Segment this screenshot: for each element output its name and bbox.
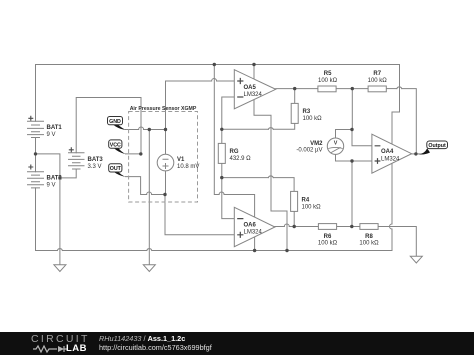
hop arc OA4 Vminus wire over R8 row: [390, 224, 393, 229]
wire: rail drop at 214.3 to OA6 Vplus row, hop at 221.8: [214, 65, 219, 195]
svg-text:10.8 mV: 10.8 mV: [177, 164, 199, 170]
voltage source V1: [157, 154, 199, 171]
resistor R6: [318, 224, 336, 230]
node rail drop: [213, 63, 216, 66]
svg-text:R7: R7: [373, 71, 381, 77]
wire: OA4 output to flag: [412, 153, 424, 155]
svg-text:100 kΩ: 100 kΩ: [318, 78, 338, 84]
resistor R3: [291, 103, 298, 123]
hop arc rail over BAT ground wire: [57, 249, 62, 251]
footer bar: [0, 332, 474, 355]
wire: mid junction to BAT2 top: [35, 154, 37, 172]
wire: sensor ground vertical down to ground 2: [148, 130, 150, 265]
wire: RG bottom lead: [221, 163, 223, 177]
node sensor gnd a: [148, 128, 151, 131]
sensor dashed box Air Pressure Sensor XGMP: [129, 112, 198, 203]
node VCC pin: [139, 152, 142, 155]
wire: top supply rail and left outer wire down to BAT1: [36, 65, 400, 122]
op-amp OA6 LM324: [234, 207, 275, 246]
footer text: [99, 334, 185, 343]
node R4 bottom: [293, 225, 296, 228]
node R3 top: [293, 87, 296, 90]
wire: feedback row RG top to R3 bottom, hop at 271: [222, 128, 268, 130]
svg-text:9 V: 9 V: [47, 183, 56, 189]
hop arc feedback row over detour: [268, 128, 273, 130]
node V1 top: [164, 128, 167, 131]
tag OUT: [109, 164, 126, 177]
svg-text:V: V: [334, 141, 338, 147]
wire: negative rail with hops at 60 and 149.3: [36, 250, 58, 252]
svg-text:100 kΩ: 100 kΩ: [318, 241, 338, 247]
node OA4 plus: [350, 159, 353, 162]
wire: R7 right with hop at 399.5, corner down to OA4 output node: [386, 88, 397, 90]
node BAT mid: [34, 152, 37, 155]
svg-text:R8: R8: [365, 234, 373, 240]
flag Output: [418, 141, 447, 154]
node OA4 out: [414, 152, 417, 155]
op-amp OA4 LM324: [372, 134, 412, 173]
svg-text:OUT: OUT: [110, 166, 122, 172]
node OA5 Vplus: [252, 63, 255, 66]
hop arc OA6 Vplus row over RG wire: [219, 192, 224, 195]
wire: top rail right end down to OA4 Vplus stub: [392, 65, 400, 145]
op-amp OA5 LM324: [234, 70, 275, 109]
wire: R4 bottom lead: [293, 211, 295, 226]
wire: OUT tag route with hop at 149.3: [126, 177, 147, 195]
wire: OA4 Vminus stub down with vertical hop at 226.5: [391, 229, 393, 251]
node RG top: [220, 128, 223, 131]
wire: RG vertical down to OA6 minus input: [222, 178, 235, 219]
wire: R3 top lead: [294, 89, 296, 104]
hop arc GND row over VCC drop: [139, 127, 144, 130]
hop arc OA6 output row over detour: [284, 224, 289, 227]
wire: R6 to R8: [337, 226, 360, 228]
wire: R8 right to ground 3: [378, 227, 416, 257]
wire: mid junction right and down to ground 1: [36, 154, 60, 265]
wire: VM2 top lead to feedback column: [336, 130, 353, 139]
svg-text:-0.002 µV: -0.002 µV: [296, 148, 322, 154]
svg-text:RG: RG: [230, 149, 239, 155]
svg-text:VM2: VM2: [310, 141, 323, 147]
svg-text:100 kΩ: 100 kΩ: [303, 116, 323, 122]
node R5 R7: [351, 87, 354, 90]
node RG bottom: [220, 176, 223, 179]
voltmeter VM2: [296, 138, 343, 154]
wire: OA6 Vminus stub: [254, 237, 256, 251]
svg-text:432.9 Ω: 432.9 Ω: [230, 156, 252, 162]
hop arc OA5 plus row over rail drop: [212, 79, 217, 82]
wire: VM2 bottom lead to OA4 plus input: [336, 154, 372, 161]
tag GND: [108, 117, 127, 130]
wire: OA5 plus input row with hop at 214.3: [166, 80, 212, 82]
node VM2 top: [350, 128, 353, 131]
battery BAT2: [27, 172, 44, 188]
ground (BAT midpoint): [54, 265, 66, 272]
wire: VCC tag row: [126, 153, 141, 155]
svg-text:OA5: OA5: [244, 85, 257, 91]
svg-text:Air Pressure Sensor XGMP: Air Pressure Sensor XGMP: [130, 106, 197, 112]
node OUT pin: [163, 193, 166, 196]
svg-text:100 kΩ: 100 kΩ: [359, 241, 379, 247]
battery BAT1: [27, 121, 44, 137]
wire: V1 bottom lead to OUT node: [165, 171, 167, 195]
resistor R4: [291, 191, 298, 211]
wire: R5 to R7: [336, 88, 368, 90]
wire: BAT3 plus up, over and down to VCC dot: [76, 98, 141, 154]
svg-text:R6: R6: [324, 234, 332, 240]
svg-text:100 kΩ: 100 kΩ: [302, 205, 322, 211]
wire: RG bottom row to R4 top, hop at 271: [222, 177, 268, 179]
svg-text:100 kΩ: 100 kΩ: [368, 78, 388, 84]
resistor R7: [368, 86, 386, 92]
svg-text:VCC: VCC: [110, 142, 121, 148]
svg-text:LM324: LM324: [381, 157, 400, 163]
svg-text:R5: R5: [324, 71, 332, 77]
hop arc rail over sensor ground wire: [147, 249, 152, 251]
node detour rail: [285, 249, 288, 252]
tag VCC: [109, 140, 126, 154]
svg-text:9 V: 9 V: [47, 132, 56, 138]
wire: OA5 Vplus stub: [253, 65, 255, 80]
wire: RG top lead: [221, 129, 223, 143]
ground (R8): [410, 256, 422, 263]
wire: OA5 minus input left and down to RG top: [222, 97, 235, 129]
svg-text:LM324: LM324: [244, 230, 263, 236]
wire: feedback column R5R7 node down to OA4 minus input: [352, 89, 372, 146]
node BAT3 minus: [58, 176, 61, 179]
CircuitLab logo: [31, 333, 90, 345]
svg-text:Output: Output: [428, 143, 446, 149]
node R6 R8: [350, 225, 353, 228]
wire: BAT1 bottom to mid junction: [35, 138, 37, 154]
resistor RG: [218, 143, 225, 163]
hop arc R7 row over Vplus drop: [397, 87, 402, 89]
svg-text:BAT1: BAT1: [47, 125, 63, 131]
wire: OA4 plus node down to R6R8 junction: [351, 161, 353, 227]
resistor R8: [360, 224, 378, 230]
svg-text:3.3 V: 3.3 V: [88, 164, 102, 170]
svg-text:OA6: OA6: [244, 223, 257, 229]
wire: OA6 output row with hop at 287: [275, 226, 284, 228]
wire: GND tag row with hop at 141: [126, 129, 139, 131]
svg-text:OA4: OA4: [381, 149, 394, 155]
wire: OUT node down and right to OA6 plus input: [165, 195, 234, 235]
wire: V1 top lead up to OA5 plus row: [165, 81, 167, 154]
resistor R5: [318, 86, 336, 92]
svg-text:R4: R4: [302, 198, 310, 204]
node OA6 Vminus rail: [253, 249, 256, 252]
svg-text:GND: GND: [109, 119, 121, 125]
wire: BAT3 bottom lead to mid node: [60, 169, 76, 178]
hop arc RG bottom row over detour: [268, 176, 273, 178]
svg-text:V1: V1: [177, 157, 185, 163]
ground (sensor): [143, 265, 155, 272]
battery BAT3: [68, 153, 85, 169]
svg-text:BAT3: BAT3: [88, 157, 104, 163]
svg-text:R3: R3: [303, 109, 311, 115]
hop arc OUT row over ground wire: [147, 192, 152, 195]
wire: BAT2 bottom to negative rail corner: [35, 188, 37, 251]
svg-text:LM324: LM324: [244, 92, 263, 98]
wire: OA5 Vminus detour down to negative rail: [254, 100, 287, 251]
wire: OA5 output row to R5: [276, 88, 318, 90]
